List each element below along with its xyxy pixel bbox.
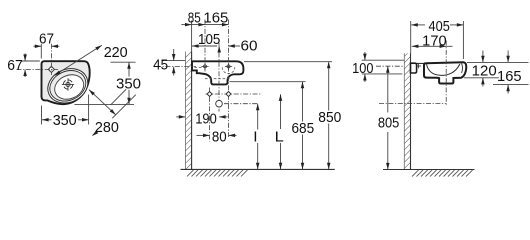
svg-text:100: 100	[352, 61, 373, 77]
svg-text:165: 165	[203, 10, 228, 26]
svg-text:80: 80	[212, 129, 227, 145]
svg-text:805: 805	[378, 116, 400, 132]
svg-text:165: 165	[497, 69, 522, 85]
svg-text:I: I	[253, 130, 257, 146]
svg-text:190: 190	[195, 111, 217, 127]
svg-text:850: 850	[318, 110, 341, 126]
svg-text:85: 85	[188, 10, 201, 26]
svg-text:60: 60	[241, 39, 258, 55]
svg-text:L: L	[275, 130, 284, 146]
svg-text:105: 105	[198, 32, 220, 48]
svg-text:350: 350	[116, 77, 141, 93]
svg-text:685: 685	[291, 121, 314, 137]
svg-text:45: 45	[153, 58, 168, 74]
svg-text:67: 67	[7, 58, 23, 74]
svg-text:170: 170	[422, 33, 446, 49]
svg-text:220: 220	[104, 45, 128, 61]
svg-text:350: 350	[53, 113, 77, 129]
svg-text:67: 67	[39, 32, 54, 48]
svg-text:120: 120	[472, 63, 497, 79]
svg-text:280: 280	[95, 120, 119, 136]
